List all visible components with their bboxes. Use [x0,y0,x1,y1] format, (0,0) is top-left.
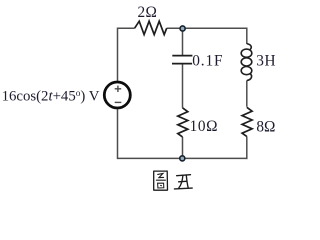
wire top-left to 2ohm resistor [118,27,135,29]
wire bottom rail [118,157,248,159]
svg-text:16cos(2t+45o) V: 16cos(2t+45o) V [2,88,100,104]
wire right branch: top corner to inductor [246,28,248,45]
plus sign inside source [115,86,122,92]
wire right branch: inductor to 8ohm resistor [246,81,248,107]
svg-text:3H: 3H [256,53,276,70]
wire middle branch: capacitor to 10ohm resistor [182,64,184,108]
caption glyph WU (five) [174,175,192,189]
resistor R 8ohm zigzag [242,107,252,136]
caption glyph TU (figure) [154,171,168,190]
wire middle branch: node to capacitor [182,28,184,55]
wire left branch upper (source top to top-left corner) [117,28,119,81]
wire 2ohm resistor to top-right corner [167,27,247,29]
node A top junction dot [180,26,185,31]
svg-text:8Ω: 8Ω [256,119,275,136]
inductor L 3H coil [241,44,252,81]
node B bottom junction dot [180,156,185,161]
svg-text:2Ω: 2Ω [138,4,158,21]
svg-text:10Ω: 10Ω [190,118,218,135]
resistor R 10ohm zigzag [178,108,188,137]
wire middle branch: 10ohm resistor to bottom node [182,137,184,159]
wire right branch: 8ohm resistor to bottom-right corner [246,136,248,159]
capacitor C 0.1F plates [172,56,192,64]
resistor R 2ohm zigzag [135,21,167,34]
minus sign inside source [115,101,122,103]
voltage source V1 circle [104,82,130,108]
wire left branch lower (source bottom to bottom-left corner) [117,109,119,159]
svg-text:0.1F: 0.1F [192,52,223,69]
